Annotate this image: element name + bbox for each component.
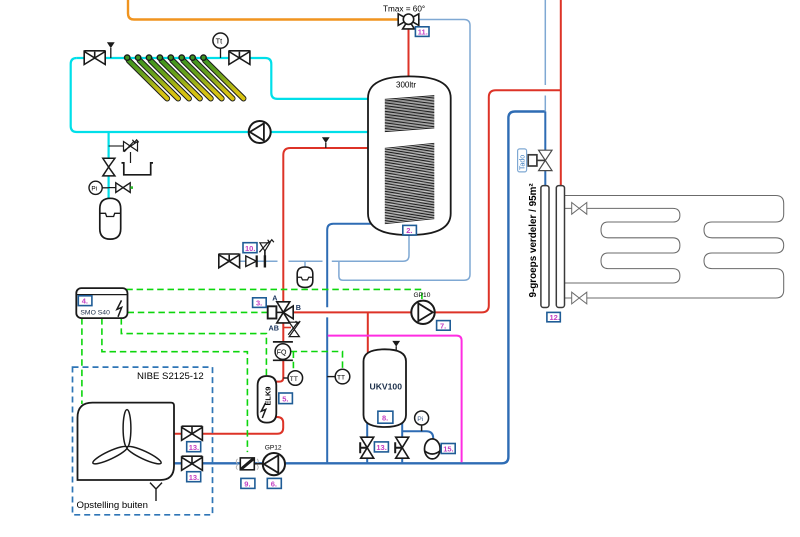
collector tube header dot 1: [125, 55, 130, 60]
valve 13 on red supply: [182, 426, 203, 440]
wire green: branch to TT on red pipe: [292, 352, 294, 371]
wire steel-blue: floor heating supply from top edge: [544, 0, 546, 112]
svg-text:3.: 3.: [256, 299, 262, 308]
valve 13 on blue return: [182, 456, 203, 470]
svg-text:Tt: Tt: [216, 37, 223, 46]
wire blue: main return heat pump to manifold: [174, 112, 545, 464]
tag 13. blue: [187, 472, 201, 482]
SERPENTINE-LAYER floor heating loops: [565, 196, 784, 299]
svg-text:SMO S40: SMO S40: [80, 310, 110, 317]
svg-text:2.: 2.: [406, 226, 412, 235]
tee bar at safety valve: [264, 255, 266, 267]
wire red: tank lower coil to valve 3 port A: [283, 148, 385, 302]
wire blue: tank coil return down to main return: [327, 224, 385, 463]
wire cyan: expansion group drop: [107, 132, 109, 198]
tag 9.: [241, 478, 255, 488]
valve Tado motorized: [540, 151, 551, 170]
tag 13. red: [187, 442, 201, 452]
valve solar safety relief: [124, 140, 139, 163]
enclosure NIBE S2125-12 outdoor: [73, 367, 213, 515]
wire blue: UKV100 left bottom pipe: [366, 415, 368, 462]
SMO S40: [76, 288, 127, 318]
wire blue: UKV100 right bottom pipe: [401, 415, 403, 462]
wire cyan: solar left drop and return line: [71, 58, 385, 132]
svg-text:13.: 13.: [189, 443, 199, 452]
svg-text:AB: AB: [269, 323, 279, 332]
collector tube 8: [205, 61, 244, 99]
tag 8.: [378, 411, 393, 423]
sensor TT on blue pipe: [327, 369, 350, 384]
AIR VENT on red tank line: [322, 137, 330, 148]
TANK 300ltr: [368, 76, 451, 235]
VALVE 11 mixing: [383, 5, 429, 37]
svg-text:B: B: [296, 303, 301, 312]
svg-text:Opstelling buiten: Opstelling buiten: [77, 500, 148, 511]
valve safety small at AB: [288, 321, 300, 337]
wire green: SMO S40 to pump GP10: [126, 289, 422, 300]
svg-text:15.: 15.: [443, 445, 453, 454]
sensor Tt: [213, 33, 228, 58]
svg-text:Tado: Tado: [519, 155, 526, 170]
MANIFOLD: [528, 183, 587, 322]
valve UKV right: [398, 438, 407, 457]
collector tube header dot 2: [135, 55, 140, 60]
collector tube header dot 3: [146, 55, 151, 60]
collector tube 6: [183, 61, 222, 99]
heatpump unit body: [78, 403, 175, 480]
tag 10.: [243, 243, 257, 253]
valve check: [246, 256, 257, 267]
svg-text:7.: 7.: [440, 321, 446, 330]
ELK9: [258, 376, 293, 423]
wire red: stub to small safety valve at valve 3: [283, 327, 291, 329]
PIPES-LAYER: [71, 0, 561, 463]
valve on return loop pipe: [572, 292, 587, 304]
svg-text:A: A: [272, 293, 277, 302]
gauge Pi UKV: [415, 411, 429, 425]
filter 9: [236, 458, 258, 470]
sensor TT on red pipe: [283, 371, 302, 386]
tag 12.: [547, 312, 560, 322]
fan blades: [91, 410, 162, 467]
HP VALVES: [182, 426, 285, 488]
svg-text:GP12: GP12: [265, 445, 282, 452]
collector tube header dot 6: [179, 55, 184, 60]
svg-text:TT: TT: [337, 375, 345, 382]
wire blue: stub to Pi gauge: [421, 425, 423, 431]
heater ELK9: [258, 376, 277, 423]
tag 5.: [279, 393, 293, 404]
UKV100: [360, 341, 455, 459]
wire steel-blue: valve 11 to tank bottom branch (DHW mixed loop): [339, 20, 470, 281]
tag 11.: [415, 27, 429, 37]
wire magenta: UKV100 zone line: [328, 336, 462, 463]
wire green: SMO S40 to ELK9: [121, 318, 266, 376]
wire green: SMO S40 to filter/pump GP12: [102, 318, 248, 452]
collector tube header dot 5: [168, 55, 173, 60]
collector tube header dot 4: [157, 55, 162, 60]
svg-text:300ltr: 300ltr: [396, 81, 416, 90]
wire blue: branch to expansion vessel 15: [402, 431, 433, 440]
wire red: valve 11 down to tank top: [408, 29, 410, 79]
pump solar circulation: [249, 121, 271, 143]
svg-text:FQ: FQ: [277, 350, 287, 357]
tag 7.: [437, 321, 451, 331]
air vent on red pipe: [322, 137, 330, 143]
vessel DHW expansion: [297, 267, 313, 287]
tag 13. UKV: [374, 442, 388, 452]
svg-text:NIBE S2125-12: NIBE S2125-12: [137, 371, 204, 382]
funnel tundish: [122, 163, 154, 175]
tag 4.: [78, 296, 92, 306]
air vent on UKV top: [392, 341, 400, 347]
manifold verdeler bars: [541, 186, 549, 308]
svg-text:ELK9: ELK9: [263, 387, 272, 406]
wire red: valve 3 port B to GP10 and up to top right: [293, 90, 561, 312]
svg-text:5.: 5.: [282, 394, 288, 403]
valve on supply loop pipe: [572, 203, 587, 215]
svg-text:UKV100: UKV100: [370, 381, 403, 391]
svg-text:TT: TT: [290, 376, 298, 383]
valve solar shut-off vertical: [104, 158, 113, 177]
svg-text:8.: 8.: [382, 414, 388, 423]
tag 2.: [403, 225, 417, 235]
valve solar right shut-off: [229, 51, 250, 65]
wire steel-blue: stub to DHW expansion vessel: [304, 261, 306, 267]
wire gray: floor loop serpentine outer: [565, 196, 784, 299]
collector tube 3: [151, 61, 190, 99]
GP10: [411, 292, 450, 330]
TADO VALVE: [518, 149, 552, 172]
wire green: SMO S40 to heat pump: [81, 318, 83, 404]
svg-text:Pi: Pi: [91, 186, 97, 193]
valve 13 UKV left: [363, 438, 372, 457]
SOLAR COLLECTOR: [84, 33, 271, 143]
collector tube 5: [172, 61, 211, 99]
DHW INLET GROUP: [219, 240, 313, 288]
controller SMO S40: [76, 288, 127, 318]
meter FQ flow: [273, 342, 293, 360]
svg-text:11.: 11.: [418, 28, 428, 37]
tag 3.: [253, 298, 267, 308]
drain symbol below unit: [150, 483, 162, 501]
NIBE BOX: [73, 367, 213, 515]
svg-text:GP10: GP10: [414, 292, 431, 299]
svg-text:Pi: Pi: [417, 416, 424, 423]
wire red: ELK9 outlet to heat pump: [174, 417, 283, 434]
air vent on solar pipe: [107, 42, 115, 48]
tank UKV100: [364, 349, 407, 427]
svg-text:6.: 6.: [271, 480, 277, 489]
wire red: branch down to UKV100 top: [367, 312, 369, 353]
collector tubes: [125, 55, 244, 99]
vessel 15 expansion: [425, 439, 441, 459]
valve solar left shut-off: [84, 51, 105, 65]
collector tube 2: [140, 61, 179, 99]
wire orange: boiler supply from top edge to valve 11: [128, 0, 399, 20]
svg-text:9.: 9.: [244, 480, 250, 489]
valve 11 thermostatic mixing: [398, 14, 408, 26]
svg-text:10.: 10.: [245, 244, 255, 253]
tag 15.: [441, 444, 455, 454]
SOLAR EXPANSION GROUP: [89, 140, 153, 239]
svg-text:13.: 13.: [376, 443, 386, 452]
label Tado: [518, 149, 527, 172]
collector tube 4: [161, 61, 200, 99]
wire green: FQ to sensors TT: [291, 352, 343, 370]
wire red: valve 3 AB down through FQ: [282, 323, 284, 342]
VALVE 3 GROUP: [253, 293, 301, 360]
valve safety relief DHW: [259, 240, 274, 256]
collector tube header dot 8: [201, 55, 206, 60]
wire gray: floor loop serpentine middle: [565, 208, 680, 283]
wire red: vertical from top edge to manifold right bar: [560, 0, 562, 187]
pump GP10: [411, 301, 434, 324]
tank 300ltr body: [368, 76, 451, 235]
wire green: SMO S40 to valve 3 actuator: [128, 311, 268, 313]
tag 6.: [267, 478, 281, 488]
coil lower heat exchanger: [385, 143, 435, 223]
valve drain with cap: [109, 183, 133, 193]
GREEN-DASH-LAYER control wiring: [82, 289, 422, 452]
collector tube 1: [129, 61, 168, 99]
svg-text:12.: 12.: [550, 313, 560, 322]
svg-text:9-groeps verdeler / 95m²: 9-groeps verdeler / 95m²: [528, 183, 539, 298]
SENSORS TT: [283, 369, 350, 385]
collector tube header dot 7: [190, 55, 195, 60]
wire blue: supply through Tado valve to manifold left bar: [544, 112, 546, 187]
wire cyan: solar supply top: [77, 58, 385, 99]
wire black: branch to solar safety valve: [109, 145, 124, 147]
valve shut-off with handle: [219, 254, 240, 268]
coil upper heat exchanger: [385, 96, 435, 132]
wire steel-blue: cold water line to tank bottom port: [219, 235, 409, 261]
svg-text:13.: 13.: [189, 473, 199, 482]
collector tube 7: [194, 61, 233, 99]
gauge Pi: [89, 181, 109, 194]
pump GP12: [254, 453, 285, 475]
svg-text:4.: 4.: [82, 297, 88, 306]
valve 3 three-way with actuator: [268, 302, 294, 323]
wire red: FQ to ELK9 inlet: [276, 360, 283, 381]
svg-text:Tmax = 60°: Tmax = 60°: [383, 5, 425, 14]
vessel solar expansion: [100, 198, 121, 239]
